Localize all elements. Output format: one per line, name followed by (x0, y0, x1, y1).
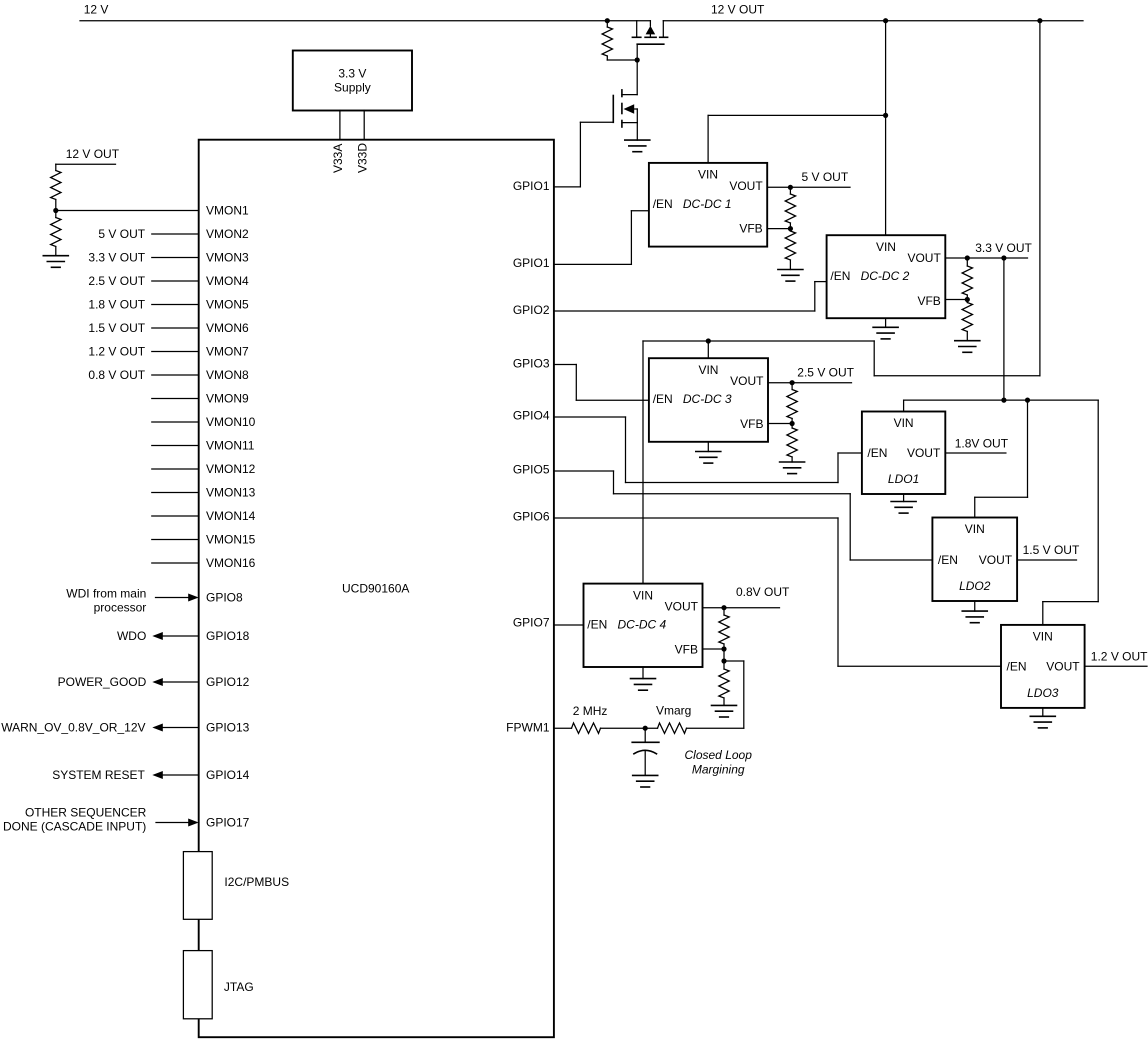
svg-text:VOUT: VOUT (729, 179, 763, 193)
wire 12V OUT feed to DC-DC3 DC-DC4 (643, 21, 1040, 376)
svg-text:WARN_OV_0.8V_OR_12V: WARN_OV_0.8V_OR_12V (1, 721, 145, 735)
svg-text:VIN: VIN (1033, 629, 1053, 643)
wire DC-DC1 VIN (708, 115, 886, 162)
wire 12V OUT rail right (663, 20, 1083, 22)
node WDI from main processor label (66, 587, 146, 615)
wire FPWM1 lead (554, 727, 572, 729)
svg-text:GPIO2: GPIO2 (513, 303, 550, 317)
svg-text:VMON7: VMON7 (206, 345, 249, 359)
wire DC-DC4 VIN drop (642, 341, 644, 584)
svg-text:1.8V OUT: 1.8V OUT (955, 436, 1009, 450)
svg-text:2.5 V OUT: 2.5 V OUT (88, 274, 145, 288)
wire V33A supply (339, 111, 341, 140)
wire 1.8V OUT (945, 452, 1006, 454)
junction dot 3.3V rail top (1001, 255, 1006, 260)
svg-text:VMON14: VMON14 (206, 509, 256, 523)
wire VMON11 (152, 445, 199, 447)
svg-text:VMON15: VMON15 (206, 533, 256, 547)
wire Q2 gate to GPIO1 (554, 122, 581, 187)
resistor 0.8V divider lower (719, 661, 729, 705)
wire 0.8V OUT (703, 607, 780, 609)
ground 3.3V divider (955, 341, 980, 353)
svg-text:VIN: VIN (698, 363, 718, 377)
junction dot 0.8V VFB tap (721, 646, 726, 651)
wire GPIO13 output arrow (152, 724, 198, 732)
block DC-DC 4 (584, 584, 703, 667)
junction dot margining tap (721, 658, 726, 663)
svg-text:3.3 V OUT: 3.3 V OUT (975, 241, 1032, 255)
svg-text:/EN: /EN (653, 197, 673, 211)
wire GPIO17 input arrow (156, 819, 199, 827)
junction dot VIN feed (883, 113, 888, 118)
svg-text:Closed Loop: Closed Loop (685, 748, 753, 762)
svg-text:5 V OUT: 5 V OUT (98, 227, 145, 241)
svg-text:VMON6: VMON6 (206, 321, 249, 335)
svg-text:LDO1: LDO1 (888, 472, 919, 486)
resistor 3.3V divider upper (962, 258, 972, 300)
resistor Vmarg (658, 723, 687, 733)
wire 1.5 V OUT (1017, 559, 1076, 561)
svg-text:VMON10: VMON10 (206, 415, 256, 429)
wire GPIO8 input arrow (156, 594, 199, 602)
junction dot DC-DC3 VIN (706, 338, 711, 343)
transistor Q2 NMOS (580, 90, 637, 140)
svg-text:VOUT: VOUT (979, 553, 1013, 567)
svg-text:GPIO12: GPIO12 (206, 675, 250, 689)
svg-text:VOUT: VOUT (1046, 659, 1080, 673)
svg-text:VFB: VFB (917, 294, 940, 308)
svg-text:VMON2: VMON2 (206, 227, 249, 241)
junction dot 3.3V VFB tap (965, 297, 970, 302)
block LDO1 (862, 412, 945, 495)
svg-text:GPIO7: GPIO7 (513, 616, 550, 630)
svg-text:VOUT: VOUT (907, 446, 941, 460)
junction dot 3.3V rail mid (1001, 398, 1006, 403)
wire VMON4 (152, 280, 199, 282)
wire VFB to margining resistor (724, 649, 744, 728)
op-amp U1 UCD90160A main IC box (199, 140, 554, 1037)
svg-text:DC-DC 1: DC-DC 1 (683, 197, 732, 211)
junction dot 5V VFB tap (788, 226, 793, 231)
svg-text:GPIO8: GPIO8 (206, 591, 243, 605)
svg-text:VOUT: VOUT (730, 374, 764, 388)
wire Vmarg to divider (687, 727, 744, 729)
resistor 3.3V divider lower (962, 300, 972, 341)
svg-text:UCD90160A: UCD90160A (342, 581, 409, 595)
svg-text:V33D: V33D (355, 143, 369, 173)
junction dot rail DC-DC2 feed (883, 18, 888, 23)
resistor 2 MHz (572, 723, 601, 733)
ground DC-DC3 (696, 442, 721, 463)
svg-text:SYSTEM RESET: SYSTEM RESET (52, 768, 145, 782)
wire gate node to Q2 drain (622, 60, 637, 95)
wire LDO1 VIN stub (903, 400, 905, 411)
svg-text:1.8 V OUT: 1.8 V OUT (88, 298, 145, 312)
wire VMON16 (152, 562, 199, 564)
junction dot 2.5V divider top (790, 380, 795, 385)
svg-text:DC-DC 4: DC-DC 4 (618, 618, 667, 632)
svg-text:VMON16: VMON16 (206, 556, 256, 570)
svg-text:VIN: VIN (894, 416, 914, 430)
ground margining cap (633, 775, 658, 787)
svg-text:VMON13: VMON13 (206, 486, 256, 500)
resistor divider upper 12V (51, 171, 61, 211)
svg-text:VMON3: VMON3 (206, 251, 249, 265)
svg-text:12 V OUT: 12 V OUT (711, 3, 765, 17)
block DC-DC 1 (649, 163, 767, 247)
wire VMON14 (152, 515, 199, 517)
svg-text:VMON5: VMON5 (206, 298, 249, 312)
svg-text:I2C/PMBUS: I2C/PMBUS (224, 875, 289, 889)
svg-text:OTHER SEQUENCER: OTHER SEQUENCER (25, 806, 147, 820)
svg-text:1.5 V OUT: 1.5 V OUT (88, 321, 145, 335)
svg-text:1.2 V OUT: 1.2 V OUT (88, 345, 145, 359)
wire VMON15 (152, 539, 199, 541)
svg-text:GPIO14: GPIO14 (206, 768, 250, 782)
svg-text:JTAG: JTAG (224, 980, 254, 994)
svg-text:VFB: VFB (740, 417, 763, 431)
block DC-DC 3 (649, 358, 768, 442)
svg-text:/EN: /EN (587, 618, 607, 632)
wire 5 V OUT (767, 186, 850, 188)
svg-text:VFB: VFB (675, 642, 698, 656)
ground 2.5V divider (780, 462, 805, 474)
ground Q2 source (625, 140, 650, 152)
svg-text:2 MHz: 2 MHz (573, 704, 608, 718)
junction dot LDO2 feed (1025, 398, 1030, 403)
svg-text:GPIO5: GPIO5 (513, 463, 550, 477)
svg-text:FPWM1: FPWM1 (506, 721, 550, 735)
svg-text:LDO3: LDO3 (1027, 686, 1059, 700)
wire 1.2 V OUT (1085, 665, 1147, 667)
svg-text:VMON1: VMON1 (206, 204, 249, 218)
svg-text:GPIO1: GPIO1 (513, 179, 550, 193)
junction dot margining cap (643, 726, 648, 731)
svg-text:3.3 V: 3.3 V (338, 66, 366, 80)
svg-text:12 V OUT: 12 V OUT (66, 147, 120, 161)
junction dot 2.5V VFB tap (790, 421, 795, 426)
transistor Q1 PMOS pass FET (632, 21, 667, 60)
svg-text:Supply: Supply (334, 80, 371, 94)
svg-text:1.5 V OUT: 1.5 V OUT (1023, 543, 1080, 557)
svg-text:DC-DC 3: DC-DC 3 (683, 392, 732, 406)
ground 0.8V divider (712, 705, 737, 717)
resistor 5V divider upper (785, 187, 795, 228)
wire VMON9 (152, 398, 199, 400)
junction dot gate node (635, 57, 640, 62)
block 3.3V Supply (293, 51, 412, 111)
ground 12V divider (43, 256, 68, 268)
svg-text:VMON12: VMON12 (206, 462, 256, 476)
wire V33D supply (363, 111, 365, 140)
svg-text:/EN: /EN (830, 269, 850, 283)
resistor 5V divider lower (785, 229, 795, 270)
wire DC-DC1 VFB (767, 228, 790, 230)
svg-text:/EN: /EN (653, 392, 673, 406)
block DC-DC 2 (827, 235, 946, 318)
svg-text:GPIO4: GPIO4 (513, 409, 550, 423)
wire GPIO2 to DC-DC2 /EN (554, 282, 827, 311)
svg-text:2.5 V OUT: 2.5 V OUT (797, 365, 854, 379)
wire DC-DC3 VIN stub (707, 341, 709, 358)
svg-text:12 V: 12 V (84, 3, 109, 17)
resistor R gate pull-up (602, 21, 637, 60)
svg-text:VFB: VFB (739, 222, 762, 236)
svg-text:/EN: /EN (938, 553, 958, 567)
wire 12V OUT stub left (56, 164, 116, 170)
svg-text:VMON11: VMON11 (206, 439, 255, 453)
svg-text:WDI from main: WDI from main (66, 587, 146, 601)
ground DC-DC2 (873, 318, 898, 339)
wire LDO2 VIN feed (975, 400, 1028, 517)
wire 3.3V rail down (1003, 258, 1005, 400)
block LDO2 (932, 518, 1017, 602)
wire VMON1 (56, 210, 199, 212)
svg-text:/EN: /EN (1007, 659, 1027, 673)
wire VMON3 (152, 257, 199, 259)
wire DC-DC4 VFB (703, 648, 725, 650)
wire VMON12 (152, 468, 199, 470)
wire GPIO12 output arrow (152, 678, 198, 686)
wire DC-DC2 VFB (945, 299, 967, 301)
wire VMON5 (152, 304, 199, 306)
wire VMON7 (152, 351, 199, 353)
junction dot rail DC-DC3 feed (1037, 18, 1042, 23)
node Closed Loop Margining label (685, 748, 753, 777)
svg-text:5 V OUT: 5 V OUT (802, 170, 849, 184)
wire GPIO18 output arrow (152, 632, 198, 640)
wire GPIO5 to LDO2 /EN (554, 471, 933, 560)
svg-text:POWER_GOOD: POWER_GOOD (58, 675, 147, 689)
svg-text:VMON9: VMON9 (206, 392, 249, 406)
junction dot rail R1 (605, 18, 610, 23)
svg-text:0.8 V OUT: 0.8 V OUT (88, 368, 145, 382)
wire GPIO4 to LDO1 /EN (554, 417, 862, 483)
svg-text:GPIO1: GPIO1 (513, 256, 550, 270)
wire 3.3V distribution rail (904, 399, 1099, 401)
svg-text:VMON8: VMON8 (206, 368, 249, 382)
ground DC-DC4 (631, 667, 656, 690)
junction dot VMON1 tap (53, 208, 58, 213)
resistor 2.5V divider lower (787, 424, 797, 463)
junction dot 0.8V divider top (721, 605, 726, 610)
svg-text:0.8V OUT: 0.8V OUT (736, 585, 790, 599)
wire VMON2 (152, 233, 199, 235)
wire VMON13 (152, 492, 199, 494)
wire GPIO14 output arrow (152, 771, 198, 779)
svg-text:GPIO13: GPIO13 (206, 721, 250, 735)
svg-text:DONE (CASCADE INPUT): DONE (CASCADE INPUT) (3, 820, 146, 834)
ground LDO2 (962, 601, 987, 623)
wire VMON8 (152, 374, 199, 376)
svg-text:LDO2: LDO2 (959, 579, 991, 593)
svg-text:VOUT: VOUT (907, 251, 941, 265)
svg-text:GPIO18: GPIO18 (206, 629, 250, 643)
wire GPIO7 to DC-DC4 /EN (554, 624, 584, 626)
wire GPIO6 to LDO3 /EN (554, 518, 1001, 666)
svg-text:1.2 V OUT: 1.2 V OUT (1091, 650, 1148, 664)
svg-text:VIN: VIN (698, 168, 718, 182)
svg-text:Vmarg: Vmarg (656, 704, 691, 718)
svg-text:VIN: VIN (876, 240, 896, 254)
svg-text:VIN: VIN (633, 588, 653, 602)
wire VMON10 (152, 421, 199, 423)
svg-text:GPIO17: GPIO17 (206, 816, 250, 830)
wire GPIO1 lower to DC-DC1 /EN (554, 211, 649, 265)
wire 3.3 V OUT (945, 257, 1027, 259)
svg-text:GPIO3: GPIO3 (513, 357, 550, 371)
node OTHER SEQUENCER DONE label (3, 806, 147, 834)
connector I2C/PMBUS (183, 852, 289, 920)
wire 12V to DC-DC2 VIN (885, 21, 887, 236)
svg-text:processor: processor (94, 601, 147, 615)
wire 2.5 V OUT (768, 382, 852, 384)
wire 12V rail left (80, 20, 650, 22)
ground 5V divider (778, 270, 803, 282)
ground LDO1 (891, 494, 916, 513)
ground LDO3 (1030, 708, 1055, 728)
svg-text:VIN: VIN (965, 522, 985, 536)
svg-text:V33A: V33A (331, 144, 345, 173)
junction dot 3.3V divider top (965, 255, 970, 260)
wire DC-DC3 VFB (768, 423, 792, 425)
resistor divider lower 12V (51, 211, 61, 256)
svg-text:VMON4: VMON4 (206, 274, 249, 288)
svg-text:3.3 V OUT: 3.3 V OUT (88, 251, 145, 265)
capacitor margining (632, 728, 659, 775)
connector JTAG (183, 951, 253, 1019)
svg-text:GPIO6: GPIO6 (513, 510, 550, 524)
wire LDO3 VIN feed (1043, 400, 1098, 625)
wire VMON6 (152, 327, 199, 329)
junction dot 5V divider top (788, 185, 793, 190)
resistor 0.8V divider upper (719, 608, 729, 649)
wire 2MHz to Vmarg (601, 727, 658, 729)
svg-text:WDO: WDO (117, 629, 146, 643)
svg-text:Margining: Margining (692, 763, 745, 777)
wire GPIO3 to DC-DC3 /EN (554, 365, 649, 401)
svg-text:/EN: /EN (867, 446, 887, 460)
svg-text:DC-DC 2: DC-DC 2 (861, 269, 910, 283)
svg-text:VOUT: VOUT (665, 600, 699, 614)
block LDO3 (1001, 625, 1085, 708)
resistor 2.5V divider upper (787, 383, 797, 424)
